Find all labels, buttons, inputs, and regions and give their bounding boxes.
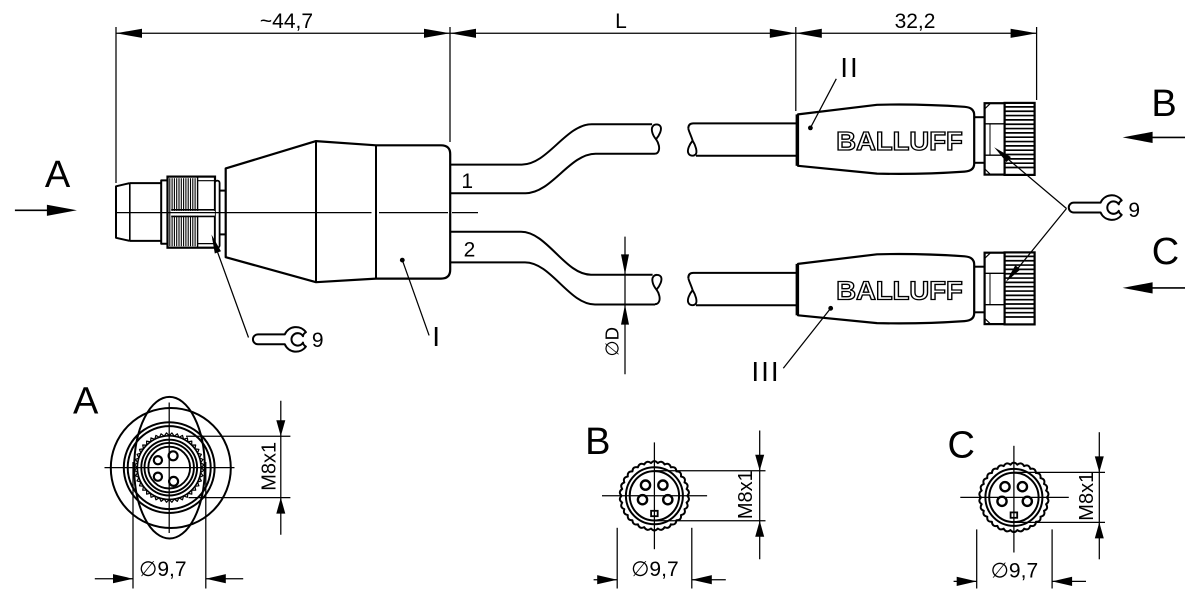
svg-text:∅9,7: ∅9,7 — [991, 560, 1039, 583]
male M8 connector thread tip — [116, 183, 161, 241]
view A M8x1 dimension — [186, 401, 290, 535]
svg-text:III: III — [751, 356, 780, 387]
view B diameter 9,7 dimension — [594, 528, 726, 589]
dimension L — [450, 10, 796, 111]
view A male connector face — [105, 397, 235, 539]
male nut rear ring — [215, 181, 220, 248]
male nut slot — [171, 210, 215, 217]
svg-text:C: C — [947, 425, 974, 467]
svg-text:BALLUFF: BALLUFF — [836, 126, 963, 156]
wrench leader to male nut — [212, 235, 249, 338]
dimension ~44,7 — [116, 10, 1037, 183]
view A diameter 9,7 dimension — [95, 462, 243, 589]
svg-text:II: II — [840, 52, 860, 83]
svg-text:A: A — [73, 380, 99, 422]
dimension diameter D — [602, 237, 630, 375]
svg-text:32,2: 32,2 — [895, 10, 936, 33]
cable 1 right piece — [688, 123, 797, 155]
male connector knurled nut — [168, 177, 216, 248]
svg-text:1: 1 — [461, 170, 473, 193]
svg-text:9: 9 — [312, 329, 324, 352]
label I leader — [400, 258, 440, 352]
neck between nut and Y-body — [220, 191, 226, 235]
wrench size 9 symbol (left) — [253, 327, 306, 352]
cable 2 right piece — [688, 273, 797, 305]
svg-text:A: A — [45, 154, 71, 196]
svg-text:B: B — [585, 421, 610, 463]
svg-text:∅9,7: ∅9,7 — [631, 558, 679, 581]
wrench size 9 symbol (right) — [1069, 195, 1122, 220]
view arrow C — [1123, 231, 1185, 294]
svg-text:L: L — [615, 10, 627, 33]
view arrow A — [15, 154, 77, 216]
view B female connector face — [602, 442, 707, 549]
dimension 32,2 — [796, 10, 1037, 100]
svg-text:I: I — [432, 321, 440, 352]
svg-text:BALLUFF: BALLUFF — [836, 275, 963, 305]
view C female connector face — [960, 446, 1069, 553]
view B M8x1 dimension — [655, 431, 766, 560]
label III leader — [751, 306, 833, 387]
svg-text:2: 2 — [464, 239, 476, 262]
connector III (lower right female M8) — [797, 252, 1034, 324]
connector II (upper right female M8) — [797, 103, 1034, 175]
svg-text:∅D: ∅D — [602, 327, 623, 356]
svg-text:~44,7: ~44,7 — [260, 10, 313, 33]
view C M8x1 dimension — [1015, 432, 1106, 559]
wrench leaders to female nuts — [994, 147, 1066, 282]
cable 2 (lower) from splitter with break — [450, 232, 661, 305]
svg-text:M8x1: M8x1 — [1076, 472, 1098, 521]
male connector flange — [161, 180, 167, 243]
svg-text:C: C — [1152, 231, 1179, 273]
cable 1 (upper) from splitter with break — [450, 124, 661, 193]
svg-text:M8x1: M8x1 — [259, 442, 281, 491]
svg-text:M8x1: M8x1 — [735, 470, 757, 519]
view C diameter 9,7 dimension — [954, 529, 1086, 588]
view arrow B — [1123, 83, 1185, 143]
svg-text:B: B — [1151, 83, 1176, 125]
Y-splitter molded body — [226, 141, 451, 282]
svg-text:9: 9 — [1128, 199, 1140, 222]
centerline of male connector axis — [117, 212, 478, 214]
label II leader — [808, 52, 860, 130]
svg-text:∅9,7: ∅9,7 — [139, 558, 187, 581]
